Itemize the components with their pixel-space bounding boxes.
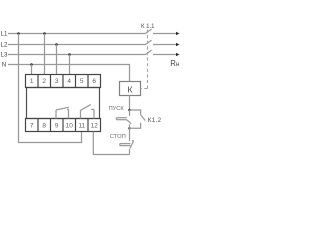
internal relay contact 11-12 [81,105,95,119]
terminal row top (1-6) [26,75,101,88]
svg-text:1: 1 [30,78,34,85]
svg-text:8: 8 [42,122,46,129]
junction N to terminal 1 [30,63,33,66]
svg-text:Rн: Rн [170,59,180,68]
svg-text:2: 2 [42,78,46,85]
auxiliary contact K1.2 [130,110,146,128]
wire K coil to junction [129,96,131,111]
svg-text:6: 6 [92,78,96,85]
svg-text:7: 7 [30,122,34,129]
svg-text:L3: L3 [1,52,8,59]
device body [27,88,100,119]
svg-text:L2: L2 [1,42,8,49]
wire L3 bus [8,54,145,56]
svg-text:5: 5 [80,78,84,85]
wire terminal 12 down to stop button [93,132,129,155]
junction L1 left [17,32,20,35]
junction L3 to terminal 4 [68,53,71,56]
push-button STOP (NC) [120,128,134,154]
wire L2 bus [8,44,145,46]
arrowhead L3 out [176,53,180,56]
svg-text:К1.2: К1.2 [148,117,162,124]
mechanical link dashed K1.1 to K coil [141,30,148,89]
svg-text:9: 9 [55,122,59,129]
svg-text:3: 3 [55,78,59,85]
junction L2 to terminal 3 [55,43,58,46]
internal relay contact 9-10 [56,107,69,118]
terminal numbers 1-6 [30,78,97,85]
contactor contact K1.1 pole L2 [145,40,176,45]
svg-text:12: 12 [91,122,99,129]
junction node top (PUSK/K1.2) [128,109,131,112]
terminal numbers 7-12 [30,122,98,129]
svg-text:L1: L1 [1,31,8,38]
svg-text:4: 4 [67,78,71,85]
wire L1 down-left long run to terminal 11 [19,34,82,143]
svg-text:К 1.1: К 1.1 [141,24,155,30]
relay coil K box [120,82,141,96]
junction node bottom (PUSK/K1.2) [128,127,131,130]
svg-text:11: 11 [78,122,85,129]
svg-text:10: 10 [66,122,74,129]
arrowhead L2 out [176,43,180,46]
wire L2 drop to terminal 3 [56,45,58,75]
contactor contact K1.1 pole L3 [145,50,176,55]
wire L3 drop to terminal 4 [69,55,71,75]
terminal row bottom (7-12) [26,119,101,132]
wire N drop to terminal 1 [31,65,33,75]
contactor contact K1.1 pole L1 [145,29,176,34]
wire L1 drop to terminal 2 [44,34,46,75]
arrowhead L1 out [176,32,180,35]
svg-text:ПУСК: ПУСК [109,106,125,112]
push-button PUSK (NO) [116,110,131,128]
svg-text:К: К [127,85,132,95]
wire L1 bus [8,33,145,35]
svg-text:СТОП: СТОП [110,134,126,140]
junction L1 to terminal 2 [43,32,46,35]
svg-text:N: N [2,62,6,69]
wire N bus [8,65,130,83]
